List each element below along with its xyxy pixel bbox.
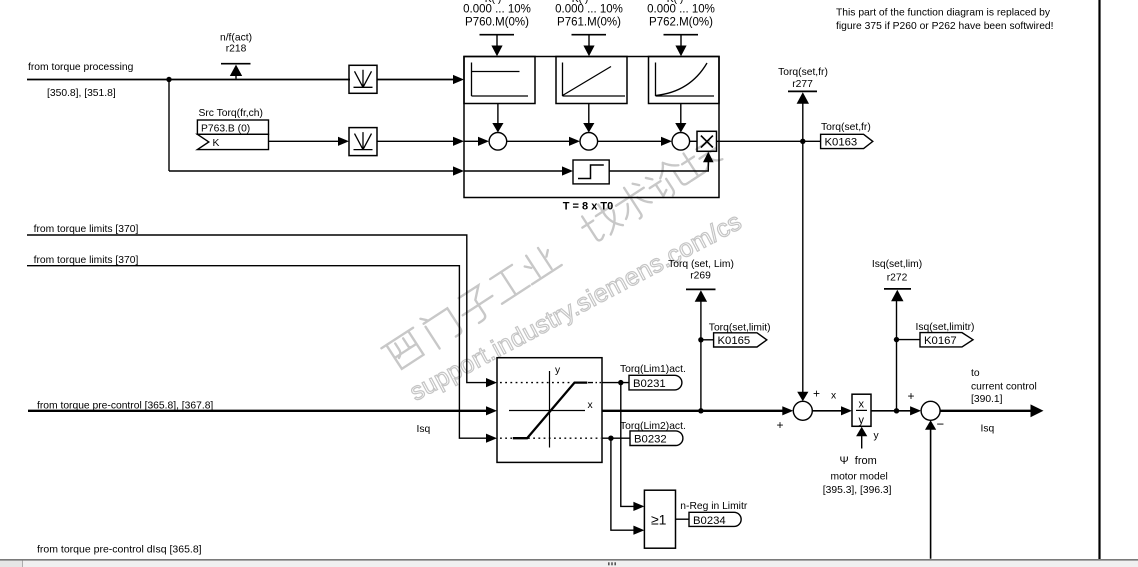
wire main line after limiter <box>602 410 784 412</box>
svg-text:Isq(set,lim): Isq(set,lim) <box>872 259 922 270</box>
adder circle 2 <box>580 133 598 151</box>
wire junction down to line3 <box>168 80 170 172</box>
watermark char 术 <box>610 179 656 226</box>
svg-text:from torque processing: from torque processing <box>28 62 134 73</box>
svg-text:from torque limits [370]: from torque limits [370] <box>34 224 139 235</box>
grip dots <box>608 562 616 565</box>
svg-text:r218: r218 <box>226 44 247 55</box>
wire K0163 junction down to adder left <box>802 141 804 393</box>
svg-text:from torque limits [370]: from torque limits [370] <box>34 255 139 266</box>
adder circle 3 <box>672 133 690 151</box>
connector K0167 <box>897 339 921 341</box>
svg-text:Torq(Lim1)act.: Torq(Lim1)act. <box>620 364 686 375</box>
wire torque limit 2 <box>27 266 488 439</box>
wire adder2 to adder3 <box>598 140 663 142</box>
svg-text:n/f(act): n/f(act) <box>220 32 252 43</box>
wire psi into divider <box>861 436 863 449</box>
svg-text:r277: r277 <box>792 79 813 90</box>
NOTE TOP RIGHT <box>836 0 1100 559</box>
svg-text:Isq: Isq <box>417 424 431 435</box>
wire box C to adder3 <box>680 104 682 125</box>
function box B linear <box>556 57 627 104</box>
wire torque limit 1 <box>27 235 488 383</box>
watermark char 坛 <box>677 137 723 180</box>
norm block 2 <box>349 128 377 156</box>
limiter block <box>497 358 602 463</box>
svg-text:P761.M(0%): P761.M(0%) <box>557 16 621 28</box>
multiplier block X <box>697 131 717 151</box>
svg-text:[390.1]: [390.1] <box>971 394 1003 405</box>
parameter P761 arrow <box>572 34 607 36</box>
svg-text:x: x <box>859 399 865 411</box>
wire main pre-control line <box>28 410 486 412</box>
wire from bottom into adder2 <box>930 429 932 559</box>
wire line2 from connector <box>269 140 341 142</box>
node B0231 junction <box>618 380 623 385</box>
wire main torque line to big box <box>377 79 455 81</box>
limiter characteristic curve <box>513 383 588 439</box>
wire multiplier output <box>717 140 822 142</box>
svg-text:−: − <box>937 417 945 432</box>
arrowhead into step block <box>562 166 573 175</box>
function box C exponential <box>649 57 720 104</box>
svg-text:T = 8 x T0: T = 8 x T0 <box>563 201 613 213</box>
node r272 main junction <box>894 408 899 413</box>
svg-text:B0231: B0231 <box>633 378 666 390</box>
wire box B to adder2 <box>588 104 590 125</box>
node K0163 junction <box>800 139 805 144</box>
limiter dashed lim2 <box>500 437 512 439</box>
svg-text:K0167: K0167 <box>924 335 957 347</box>
or-gate GE1 <box>644 490 675 548</box>
svg-text:from torque pre-control dIsq [: from torque pre-control dIsq [365.8] <box>37 544 202 556</box>
arrowhead line2 at big box <box>453 137 464 146</box>
svg-text:Src Torq(fr,ch): Src Torq(fr,ch) <box>199 108 263 119</box>
watermark url text <box>405 207 746 406</box>
wire adder1 to divider <box>812 410 843 412</box>
svg-text:Ψ from: Ψ from <box>840 455 877 467</box>
svg-text:K: K <box>213 138 220 149</box>
LOWER SECTION <box>27 224 1044 559</box>
svg-text:Isq: Isq <box>981 424 995 435</box>
node r269 main line junction <box>698 408 703 413</box>
arrowhead line3 at big box <box>453 166 464 175</box>
wire line2 to big box <box>377 140 455 142</box>
svg-text:y: y <box>874 431 880 442</box>
svg-text:motor model: motor model <box>831 472 888 483</box>
watermark char 工 <box>487 263 529 304</box>
svg-text:+: + <box>777 418 784 432</box>
svg-text:r269: r269 <box>690 271 711 282</box>
svg-text:0.000 ... 10%: 0.000 ... 10% <box>555 4 623 16</box>
BOTTOM BAR <box>0 560 1138 567</box>
svg-text:K0163: K0163 <box>825 136 858 148</box>
limiter y axis <box>549 371 551 448</box>
watermark char 技 <box>577 199 625 246</box>
arrowhead into box A <box>453 75 464 84</box>
MAIN DIAGRAM <box>27 0 873 401</box>
svg-text:0.000 ... 10%: 0.000 ... 10% <box>463 4 531 16</box>
svg-text:support.industry.siemens.com/c: support.industry.siemens.com/cs <box>405 207 746 406</box>
svg-text:n-Reg in Limitr: n-Reg in Limitr <box>680 501 748 512</box>
connector K0165 <box>701 339 714 341</box>
node r272 K0167 junction <box>894 337 899 342</box>
limiter dashed lim1 <box>500 382 572 384</box>
svg-text:current control: current control <box>971 381 1037 392</box>
wire line2 inside big box <box>464 140 480 142</box>
svg-text:≥1: ≥1 <box>651 512 667 528</box>
svg-text:This part of the function diag: This part of the function diagram is rep… <box>836 7 1051 18</box>
wire step block to multiplier <box>609 162 708 172</box>
wire junction B0232 to or-gate <box>611 438 635 530</box>
divider block x/y <box>852 394 871 426</box>
adder circle big 2 <box>921 401 940 420</box>
watermark char 业 <box>517 242 561 284</box>
norm block 1 <box>349 65 377 93</box>
svg-text:x: x <box>588 400 594 411</box>
big smoothing box <box>464 57 719 198</box>
svg-text:Torq(set,fr): Torq(set,fr) <box>778 67 828 78</box>
svg-text:P762.M(0%): P762.M(0%) <box>649 16 713 28</box>
svg-text:Torq (set, Lim): Torq (set, Lim) <box>668 259 734 270</box>
svg-text:y: y <box>859 415 865 427</box>
wire output to current control <box>940 410 1032 412</box>
wire adder3 to multiplier <box>690 140 697 142</box>
node r269 K0165 junction <box>698 337 703 342</box>
svg-text:y: y <box>555 365 561 376</box>
node junction A <box>166 77 171 82</box>
svg-text:[350.8], [351.8]: [350.8], [351.8] <box>47 88 116 99</box>
wire line3 inside big box <box>464 170 564 172</box>
svg-text:+: + <box>908 389 915 403</box>
svg-text:r272: r272 <box>887 273 908 284</box>
wire B0231 <box>602 382 629 384</box>
watermark char 子 <box>454 282 501 328</box>
function box A constant <box>464 57 535 104</box>
svg-text:x: x <box>831 391 837 402</box>
svg-text:P760.M(0%): P760.M(0%) <box>465 16 529 28</box>
svg-text:Torq(set,limit): Torq(set,limit) <box>709 323 771 334</box>
svg-text:0.000 ... 10%: 0.000 ... 10% <box>647 4 715 16</box>
parameter P760 arrow <box>480 34 515 36</box>
wire divider to adder2 <box>871 410 912 412</box>
wire adder1 to adder2 <box>507 140 571 142</box>
wire box A to adder1 <box>497 104 499 125</box>
wire main torque line left <box>27 79 350 81</box>
limiter x axis <box>509 410 585 412</box>
svg-text:Torq(set,fr): Torq(set,fr) <box>821 122 871 133</box>
svg-text:B0232: B0232 <box>634 434 667 446</box>
arrowhead into adder 1 <box>478 137 489 146</box>
step block <box>573 160 609 184</box>
wire junction B0231 to or-gate <box>621 383 635 507</box>
adder circle big 1 <box>793 401 812 420</box>
watermark char 门 <box>420 303 463 348</box>
wire line3 <box>169 170 455 172</box>
svg-text:[395.3], [396.3]: [395.3], [396.3] <box>823 485 892 496</box>
right border line <box>1098 0 1100 559</box>
svg-text:P763.B (0): P763.B (0) <box>201 124 250 135</box>
svg-text:to: to <box>971 368 980 379</box>
svg-text:B0234: B0234 <box>693 515 726 527</box>
wire or-gate to B0234 <box>676 518 690 520</box>
parameter P762 arrow <box>664 34 699 36</box>
watermark char 西 <box>381 328 428 372</box>
node B0232 junction <box>608 436 613 441</box>
arrowhead into norm box 2 <box>338 137 349 146</box>
svg-text:Isq(set,limitr): Isq(set,limitr) <box>916 322 975 333</box>
adder circle 1 <box>489 133 507 151</box>
watermark char 论 <box>642 156 692 204</box>
wire B0232 <box>602 437 630 439</box>
WATERMARK <box>380 133 747 406</box>
svg-text:figure 375 if P260 or P262 hav: figure 375 if P260 or P262 have been sof… <box>836 21 1054 32</box>
svg-text:K0165: K0165 <box>718 335 751 347</box>
svg-text:+: + <box>813 387 820 401</box>
